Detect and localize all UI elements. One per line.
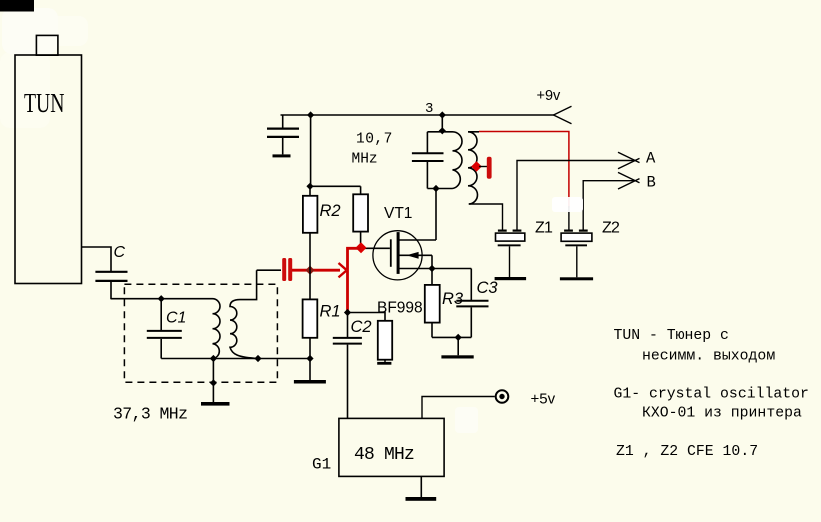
svg-text:несимм. выходом: несимм. выходом [642, 348, 775, 364]
node L1 bottom [210, 355, 217, 362]
capacitor C [95, 272, 127, 300]
node R1 bottom [306, 355, 313, 362]
svg-text:R1: R1 [320, 303, 341, 321]
arrow A [618, 152, 640, 169]
node transformer top [439, 127, 446, 134]
resistor R3 [425, 269, 440, 338]
wire output B [583, 181, 635, 230]
wire rail to R2 [310, 115, 312, 186]
inductor secondary 10.7 [468, 132, 477, 204]
capacitor rail bypass [267, 115, 299, 157]
svg-text:R3: R3 [442, 290, 464, 308]
node R2 top [306, 183, 313, 190]
svg-text:Z2: Z2 [602, 220, 620, 237]
svg-text:A: A [646, 150, 656, 168]
wire transformer bottom [427, 188, 452, 190]
svg-text:C1: C1 [166, 310, 186, 327]
filter Z1 [495, 230, 526, 281]
svg-text:VT1: VT1 [384, 205, 412, 222]
wire R2 to R4 [310, 185, 361, 187]
note G1 [614, 386, 809, 421]
svg-text:+9v: +9v [537, 88, 562, 104]
svg-text:C: C [114, 244, 126, 261]
ground R1 [294, 359, 326, 384]
dashed box 37.3 MHz filter [124, 284, 277, 382]
wire red to Z2 plate [568, 206, 570, 230]
wire R3 C3 bottom [432, 336, 471, 338]
wire L2 to coupling cap [257, 269, 281, 271]
ground G1 [406, 476, 437, 500]
resistor R2 [303, 186, 318, 270]
oscillator G1 box [339, 418, 444, 476]
svg-text:MHz: MHz [352, 152, 378, 168]
tap node red [471, 161, 482, 172]
resistor gate2 bias [353, 186, 368, 248]
svg-text:37,3 MHz: 37,3 MHz [113, 405, 187, 424]
svg-text:G1- crystal oscillator: G1- crystal oscillator [614, 386, 809, 402]
wire C to L1 [111, 298, 213, 300]
wire +5v [422, 397, 495, 419]
node C2 top [344, 309, 351, 316]
capacitor C2 [333, 313, 362, 419]
red wire secondary to Z2 [479, 132, 569, 209]
inductor L2 secondary [230, 270, 258, 358]
svg-text:Z1: Z1 [535, 220, 553, 237]
connector +5v [496, 390, 509, 403]
red wire gate2 [348, 248, 362, 312]
arrow B [618, 172, 640, 189]
svg-text:B: B [647, 174, 656, 192]
inductor L1 primary [213, 299, 221, 359]
smudge artifact over Z2 wire [552, 197, 583, 212]
node C1 top [158, 295, 165, 302]
node source bulk [428, 265, 435, 272]
wire filter bottom [161, 358, 310, 360]
svg-text:C3: C3 [477, 279, 499, 297]
wire transformer top [427, 131, 452, 133]
svg-text:TUN - Тюнер с: TUN - Тюнер с [614, 328, 729, 344]
label 10,7 MHz [352, 132, 393, 168]
note TUN [614, 328, 776, 364]
arrow gate input [339, 263, 347, 277]
wire output A [517, 161, 636, 230]
coupling capacitor red [282, 258, 292, 281]
svg-text:Z1 , Z2 CFE 10.7: Z1 , Z2 CFE 10.7 [616, 444, 758, 460]
tuner TUN box [15, 35, 82, 283]
svg-text:48 MHz: 48 MHz [354, 445, 414, 465]
svg-text:R2: R2 [320, 202, 341, 220]
red node gate2 [356, 242, 367, 253]
node L2 bottom [254, 355, 261, 362]
tap electrode red bar [487, 157, 492, 179]
node R1 top dark red [305, 266, 314, 275]
svg-text:BF998: BF998 [377, 300, 423, 317]
ground R3 C3 [441, 337, 473, 358]
node 3 junction [439, 111, 446, 118]
ground filter [201, 359, 230, 406]
wire TUN output [82, 247, 112, 271]
capacitor tank [412, 132, 444, 189]
resistor gate1 load [348, 313, 393, 365]
capacitor C1 [147, 299, 182, 359]
wire secondary top stub [468, 131, 479, 133]
capacitor C3 [456, 269, 488, 338]
svg-text:КХО-01 из принтера: КХО-01 из принтера [642, 406, 802, 422]
wire drain up [435, 189, 437, 241]
node rail R2 branch [307, 111, 314, 118]
svg-text:+5v: +5v [531, 391, 556, 408]
resistor R1 [303, 270, 318, 358]
svg-text:3: 3 [425, 101, 433, 117]
scanner bar artifact [0, 0, 34, 12]
+9v arrow [554, 106, 572, 123]
wire node3 to transformer [441, 115, 443, 132]
node transformer bottom [432, 185, 439, 192]
red wire gate input [292, 269, 340, 272]
node R3 C3 [455, 334, 462, 341]
wire tap [479, 166, 487, 168]
inductor primary 10.7 [453, 132, 463, 189]
svg-text:10,7: 10,7 [356, 132, 393, 148]
filter Z2 [560, 230, 593, 281]
transistor VT1 BF998 [361, 231, 471, 280]
svg-text:C2: C2 [351, 318, 372, 336]
wire +9v rail [281, 114, 555, 116]
wire secondary bottom [469, 204, 503, 230]
svg-text:G1: G1 [312, 456, 331, 474]
svg-text:TUN: TUN [24, 89, 64, 119]
scan artifact smudges [0, 8, 478, 433]
